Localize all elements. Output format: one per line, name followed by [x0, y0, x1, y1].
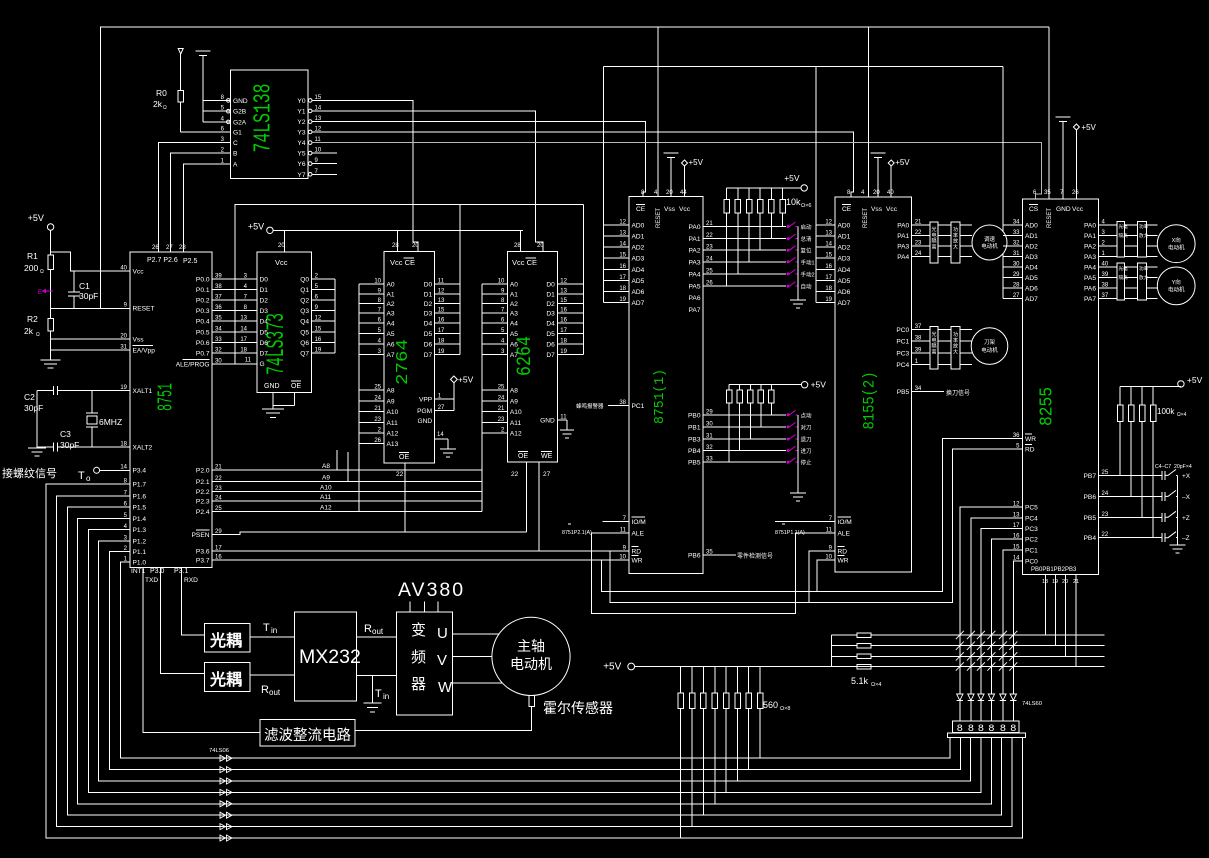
wire R0 to G1 [181, 131, 231, 133]
svg-text:AD4: AD4 [838, 267, 851, 274]
svg-text:E: E [38, 290, 42, 296]
svg-text:PC5: PC5 [1025, 505, 1038, 512]
svg-text:PA0: PA0 [1084, 223, 1096, 230]
svg-text:o: o [86, 474, 91, 483]
svg-text:Ω×6: Ω×6 [801, 203, 811, 209]
svg-text:AD1: AD1 [838, 234, 851, 241]
svg-text:ALE/PROG: ALE/PROG [176, 362, 210, 369]
LED display module (6 digits) [952, 721, 1019, 733]
svg-text:100k: 100k [1157, 407, 1175, 416]
svg-text:A9: A9 [322, 474, 330, 481]
svg-text:PA5: PA5 [1084, 275, 1096, 282]
wire INT1 to filter box [143, 567, 260, 732]
svg-text:PB6: PB6 [688, 553, 701, 560]
svg-text:20: 20 [873, 190, 880, 196]
svg-text:CE: CE [636, 206, 646, 213]
wire 8255 PB3 drop [1075, 575, 1077, 667]
ground (8155 Vss) [870, 152, 885, 154]
svg-text:A10: A10 [510, 409, 522, 416]
wire RD bus (8751 P3.6 to 8155/8255) [610, 449, 1022, 603]
wire RXD to optocoupler 1 [182, 567, 205, 635]
svg-text:PA1: PA1 [689, 236, 701, 243]
power terminal +5V (R0 top) [178, 49, 183, 55]
svg-text:D0: D0 [260, 276, 269, 283]
svg-text:+5V: +5V [603, 662, 621, 673]
svg-text:PA0: PA0 [689, 224, 701, 231]
motor M1 (speed motor) [972, 225, 1007, 260]
svg-text:对刀: 对刀 [801, 423, 812, 431]
wire 8255 PB1 drop [1054, 575, 1056, 646]
wire A from P2.5 [183, 164, 230, 252]
svg-text:P1.1: P1.1 [133, 549, 147, 556]
wire P3.7 row (RD) [212, 559, 629, 561]
svg-text:Vss: Vss [133, 337, 145, 344]
svg-text:14: 14 [437, 432, 444, 438]
svg-text:A6: A6 [387, 342, 395, 349]
wire 6264 OE riser [526, 462, 528, 532]
svg-text:A0: A0 [387, 282, 395, 289]
switches S7-S11 (magenta) [787, 410, 796, 415]
svg-text:P1.4: P1.4 [133, 516, 147, 523]
wire P1.6 net (row 7) [57, 496, 1012, 826]
wire AV380 pins [409, 602, 411, 613]
svg-text:电动机: 电动机 [981, 242, 998, 250]
svg-text:零件检测信号: 零件检测信号 [737, 552, 773, 560]
svg-text:20: 20 [120, 334, 127, 340]
svg-text:PC4: PC4 [1025, 515, 1038, 522]
svg-text:D5: D5 [546, 331, 555, 338]
svg-text:AD7: AD7 [632, 300, 645, 307]
svg-text:+5V: +5V [784, 173, 800, 183]
wire IO/M stub 8751(1) [602, 521, 629, 523]
wire hall to filter [355, 707, 532, 731]
svg-text:Y6: Y6 [297, 161, 305, 168]
svg-text:PB5: PB5 [897, 389, 910, 396]
wire Vcc row to +5V [51, 252, 130, 271]
resistor network 560 x8 [680, 667, 682, 694]
resistor network 100k x4 [1119, 386, 1121, 405]
svg-text:74LS06: 74LS06 [209, 748, 229, 754]
svg-text:A0: A0 [510, 282, 518, 289]
svg-text:GND: GND [264, 383, 280, 390]
svg-text:PA2: PA2 [1084, 244, 1096, 251]
svg-text:频: 频 [411, 649, 426, 666]
svg-text:PA4: PA4 [1084, 265, 1096, 272]
svg-text:8751(1): 8751(1) [652, 369, 668, 424]
driver box optocoupler (feed) [930, 222, 938, 263]
microcontroller U1 8751 [130, 252, 212, 567]
IO expander U7 8155(2) [835, 197, 912, 572]
svg-text:D2: D2 [424, 301, 433, 308]
svg-text:A10: A10 [320, 484, 332, 491]
svg-text:Vcc: Vcc [275, 258, 288, 267]
svg-text:AD0: AD0 [1025, 223, 1038, 230]
svg-text:+5V: +5V [248, 221, 264, 231]
svg-text:P2.2: P2.2 [196, 489, 210, 496]
driver box power amp X [1138, 222, 1147, 258]
svg-text:功率放大: 功率放大 [953, 331, 958, 355]
svg-text:A12: A12 [387, 431, 399, 438]
svg-text:Y3: Y3 [297, 129, 305, 136]
svg-text:TXD: TXD [145, 577, 158, 584]
wire P0 bus rows 8751 to 74LS373 [212, 278, 257, 280]
wire A11 row [212, 500, 482, 502]
svg-text:Q3: Q3 [300, 308, 309, 315]
svg-text:AD1: AD1 [1025, 233, 1038, 240]
svg-text:RD: RD [838, 549, 848, 556]
ground (limit switches) [1177, 544, 1179, 545]
svg-text:P0.4: P0.4 [196, 319, 210, 326]
svg-text:AV380: AV380 [398, 579, 465, 601]
svg-text:+5V: +5V [458, 374, 474, 384]
capacitor C2 30pF [37, 390, 54, 392]
svg-text:P2.4: P2.4 [196, 509, 210, 516]
svg-text:Q1: Q1 [300, 287, 309, 294]
svg-text:D0: D0 [546, 282, 555, 289]
svg-text:启动: 启动 [801, 223, 813, 231]
svg-text:G2B: G2B [233, 109, 247, 116]
svg-text:18: 18 [240, 348, 247, 354]
svg-text:P3.6: P3.6 [196, 548, 210, 555]
svg-text:Y4: Y4 [297, 140, 305, 147]
svg-text:PB6: PB6 [1084, 494, 1097, 501]
svg-text:电动机: 电动机 [1168, 286, 1185, 294]
svg-text:PA6: PA6 [1084, 286, 1096, 293]
svg-text:RESET: RESET [1047, 208, 1053, 228]
svg-text:A6: A6 [510, 342, 518, 349]
svg-text:Y7: Y7 [297, 172, 305, 179]
resistor R1 200 [50, 230, 52, 255]
svg-text:22: 22 [396, 471, 404, 478]
svg-text:5.1k: 5.1k [851, 676, 869, 686]
svg-text:–X: –X [1182, 494, 1191, 501]
svg-text:PA4: PA4 [689, 271, 701, 278]
wire P1.0 net (row 1) [120, 562, 950, 758]
svg-text:Y5: Y5 [297, 151, 305, 158]
svg-text:31: 31 [120, 345, 127, 351]
ground (8751(1) Vss) [664, 152, 679, 154]
svg-text:D3: D3 [260, 308, 269, 315]
ground (inverter input) [372, 676, 374, 703]
motor M2 (tool post motor) [971, 328, 1008, 365]
svg-text:电动机: 电动机 [510, 656, 552, 672]
svg-text:PB4: PB4 [688, 448, 701, 455]
wire 8155 IO/M stub [775, 521, 835, 523]
svg-text:A12: A12 [510, 431, 522, 438]
74LS138 U5 [231, 70, 309, 179]
svg-text:进刀: 进刀 [801, 447, 812, 455]
svg-text:PA3: PA3 [689, 259, 701, 266]
svg-text:26: 26 [1072, 190, 1079, 196]
wire opto2 to MX232 Rout [250, 674, 294, 676]
svg-text:D4: D4 [546, 320, 555, 327]
svg-text:VPP: VPP [419, 397, 433, 404]
svg-text:40: 40 [887, 190, 894, 196]
svg-text:变: 变 [411, 622, 426, 639]
svg-text:+5V: +5V [811, 380, 827, 390]
wire 10k rail [727, 187, 801, 189]
svg-text:A13: A13 [387, 441, 399, 448]
svg-text:P2.7 P2.6: P2.7 P2.6 [147, 257, 178, 264]
wire WR bus (8751 P3.7 to 8155/8255) [601, 439, 1022, 592]
svg-text:Q5: Q5 [300, 329, 309, 336]
bus 2764 data (right) [459, 205, 461, 355]
svg-text:A4: A4 [387, 320, 395, 327]
svg-text:光耦: 光耦 [209, 670, 242, 689]
svg-text:PA3: PA3 [897, 244, 909, 251]
svg-text:+5V: +5V [1187, 375, 1203, 385]
motor M5 spindle [492, 617, 570, 695]
svg-text:D7: D7 [260, 351, 269, 358]
svg-text:PA0: PA0 [897, 223, 909, 230]
wire RESET drop to 8751(1) [657, 27, 659, 197]
svg-text:CS: CS [1029, 206, 1039, 213]
svg-text:刀架: 刀架 [984, 339, 996, 346]
svg-text:PC1: PC1 [896, 338, 909, 345]
svg-text:P3.4: P3.4 [133, 468, 147, 475]
svg-text:D6: D6 [424, 342, 433, 349]
svg-text:T: T [78, 470, 85, 482]
svg-text:OE: OE [291, 383, 301, 390]
svg-text:R: R [261, 684, 269, 696]
svg-text:2764: 2764 [394, 339, 413, 385]
svg-text:P1.0: P1.0 [133, 560, 147, 567]
svg-text:G: G [260, 361, 265, 368]
wire P1.1 net (row 2) [109, 551, 960, 769]
svg-text:D3: D3 [424, 311, 433, 318]
svg-text:GND: GND [418, 418, 433, 425]
wire PB6 to part-detect [703, 554, 736, 556]
wire display +5V rail [635, 666, 1105, 668]
svg-text:PB0PB1PB2PB3: PB0PB1PB2PB3 [1031, 567, 1077, 573]
svg-text:74LS138: 74LS138 [251, 84, 278, 153]
driver box optocoupler Y [1117, 263, 1125, 300]
svg-text:AD6: AD6 [632, 289, 645, 296]
svg-text:U: U [437, 625, 448, 642]
wire 100k rail [1120, 385, 1181, 387]
wire P1.3 net (row 4) [89, 530, 981, 793]
capacitor C3 30pF [37, 446, 54, 448]
svg-text:8751: 8751 [156, 383, 179, 411]
wire 8255 AD stubs [1003, 224, 1023, 226]
svg-text:V: V [437, 652, 447, 669]
svg-text:AD4: AD4 [632, 267, 645, 274]
power terminal +5V (reset circuit) [47, 224, 53, 230]
driver box power amp (feed) [951, 222, 960, 263]
wire G2B/G2A/GND rows [203, 99, 231, 101]
wire RESET drop to 8255 [1048, 27, 1050, 199]
wire Q bus vertical [334, 279, 336, 353]
svg-text:GND: GND [233, 98, 248, 105]
svg-text:30pF: 30pF [79, 291, 98, 301]
svg-text:PB5: PB5 [688, 460, 701, 467]
motor M3 X-direction [1157, 225, 1195, 263]
svg-text:P1.3: P1.3 [133, 527, 147, 534]
svg-text:Q6: Q6 [300, 340, 309, 347]
svg-text:PA1: PA1 [897, 233, 909, 240]
wire P1.4 net (row 5) [77, 518, 991, 804]
svg-text:D1: D1 [260, 287, 269, 294]
svg-text:A: A [233, 161, 238, 168]
svg-text:C1: C1 [79, 281, 90, 291]
svg-text:AD1: AD1 [632, 234, 645, 241]
svg-text:PA3: PA3 [1084, 254, 1096, 261]
wire Y2 to 8751(1) CE [312, 122, 646, 197]
svg-text:200: 200 [24, 263, 38, 273]
svg-text:C3: C3 [60, 429, 71, 439]
svg-text:PC3: PC3 [896, 351, 909, 358]
PPI U8 8255 [1023, 199, 1099, 575]
svg-text:14: 14 [240, 326, 247, 332]
svg-text:PB4: PB4 [1084, 535, 1097, 542]
wire PC3 digit column [981, 528, 1023, 694]
svg-text:RD: RD [632, 549, 642, 556]
bus 2764 address (left) [358, 284, 360, 511]
svg-text:35: 35 [1044, 190, 1051, 196]
wire limit switch rows [1099, 474, 1163, 476]
svg-text:R1: R1 [27, 251, 38, 261]
svg-text:D0: D0 [424, 282, 433, 289]
svg-text:光耦: 光耦 [209, 631, 242, 650]
resistor R0 2k [180, 54, 182, 91]
svg-text:C4–C7: C4–C7 [1155, 464, 1171, 470]
diodes / drivers 74LS06 on digit columns [957, 694, 963, 701]
svg-text:ALE: ALE [838, 531, 851, 538]
wire MX232 Rout to inverter [357, 636, 397, 638]
svg-text:P2.5: P2.5 [183, 258, 198, 265]
wire EA row [51, 349, 130, 351]
svg-text:20: 20 [666, 190, 673, 196]
svg-text:+Z: +Z [1182, 515, 1190, 522]
power terminal +5V (8751(1) Vcc) [682, 160, 688, 166]
optocoupler box 2 [205, 662, 251, 691]
svg-text:P0.5: P0.5 [196, 329, 210, 336]
svg-text:G2A: G2A [233, 119, 247, 126]
svg-text:17: 17 [240, 337, 247, 343]
svg-text:Q4: Q4 [300, 319, 309, 326]
svg-text:27: 27 [543, 471, 551, 478]
resistor network 10k x6 [726, 188, 728, 200]
svg-text:Q0: Q0 [300, 276, 309, 283]
svg-text:AD7: AD7 [838, 300, 851, 307]
wire A12 row [212, 511, 482, 513]
svg-text:Y1: Y1 [297, 108, 305, 115]
ground (crystal) [36, 391, 38, 448]
svg-text:PC3: PC3 [1025, 526, 1038, 533]
svg-text:调速: 调速 [984, 235, 996, 243]
ground (8255 GND) [1056, 116, 1071, 118]
svg-text:D1: D1 [546, 291, 555, 298]
svg-text:+5V: +5V [689, 158, 704, 167]
svg-text:PC2: PC2 [1025, 536, 1038, 543]
wire P1.7 net (row 8) [46, 484, 1023, 838]
svg-text:W: W [438, 679, 453, 696]
svg-text:A2: A2 [387, 301, 395, 308]
wire 8255 PB0 drop [1045, 575, 1047, 635]
svg-text:A5: A5 [510, 331, 518, 338]
wire opto1 to MX232 Tin [250, 636, 294, 638]
svg-text:P0.1: P0.1 [196, 287, 210, 294]
svg-text:A8: A8 [510, 388, 518, 395]
svg-text:6MHZ: 6MHZ [99, 417, 122, 427]
svg-text:C: C [233, 140, 238, 147]
svg-text:AD3: AD3 [632, 256, 645, 263]
svg-text:XALT2: XALT2 [133, 445, 153, 452]
svg-text:Ω: Ω [36, 332, 40, 338]
svg-text:D2: D2 [546, 301, 555, 308]
svg-text:PB5: PB5 [1084, 515, 1097, 522]
svg-text:PC0: PC0 [896, 327, 909, 334]
driver box power amp Y [1138, 263, 1147, 300]
svg-text:D7: D7 [546, 352, 555, 359]
svg-text:P0.6: P0.6 [196, 340, 210, 347]
wire TXD to optocoupler 2 [161, 567, 205, 673]
filter rectifier box [260, 719, 355, 746]
label E (magenta mark) [42, 290, 53, 292]
svg-text:PC1: PC1 [1025, 547, 1038, 554]
svg-text:PA2: PA2 [689, 248, 701, 255]
svg-text:PB3: PB3 [688, 437, 701, 444]
svg-text:GND: GND [1056, 206, 1071, 213]
svg-text:P0.0: P0.0 [196, 276, 210, 283]
svg-text:MX232: MX232 [299, 646, 361, 668]
svg-text:A5: A5 [387, 331, 395, 338]
svg-text:D6: D6 [260, 340, 269, 347]
svg-text:主轴: 主轴 [517, 638, 545, 654]
svg-text:AD4: AD4 [1025, 265, 1038, 272]
wire ALE to G [212, 363, 257, 365]
svg-text:AD7: AD7 [1025, 296, 1038, 303]
hatch marks (column taps) [956, 631, 964, 639]
svg-text:D6: D6 [546, 342, 555, 349]
svg-text:停止: 停止 [801, 459, 813, 467]
svg-text:560: 560 [763, 700, 778, 710]
svg-text:器: 器 [411, 676, 426, 693]
power terminal +5V (8155 Vcc) [888, 160, 894, 166]
svg-text:换刀信号: 换刀信号 [946, 389, 970, 397]
svg-text:RD: RD [1025, 447, 1035, 454]
svg-text:44: 44 [680, 190, 687, 196]
ground (keys 1) [797, 299, 799, 300]
wire PC1 digit column [1003, 550, 1023, 694]
svg-text:P0.3: P0.3 [196, 308, 210, 315]
svg-text:+X: +X [1182, 473, 1191, 480]
svg-text:总清: 总清 [801, 235, 813, 243]
svg-text:OE: OE [518, 453, 528, 460]
svg-text:20: 20 [537, 243, 544, 249]
wire 8255 PA rows to drivers Y [1099, 266, 1158, 268]
wire Vss row [51, 338, 130, 340]
SRAM U4 6264 [507, 252, 557, 462]
svg-text:A3: A3 [387, 311, 395, 318]
svg-text:Ω×4: Ω×4 [1177, 412, 1187, 418]
wire B from P2.6 [171, 153, 231, 252]
switches S1-S6 (magenta) [787, 222, 796, 227]
wire P1.2 net (row 3) [99, 541, 971, 781]
svg-text:30pF: 30pF [60, 440, 79, 450]
svg-text:28: 28 [514, 243, 521, 249]
svg-text:Vss: Vss [664, 206, 676, 213]
svg-text:2k: 2k [153, 99, 163, 109]
wire RESET drop to 8155(2) [867, 27, 869, 197]
svg-text:Ω: Ω [163, 105, 167, 111]
microcontroller U6 8751(1) [629, 197, 703, 574]
svg-text:A7: A7 [387, 352, 395, 359]
driver box power amp (tool) [951, 326, 960, 369]
svg-text:A2: A2 [510, 301, 518, 308]
svg-text:A1: A1 [387, 291, 395, 298]
svg-text:A3: A3 [510, 311, 518, 318]
